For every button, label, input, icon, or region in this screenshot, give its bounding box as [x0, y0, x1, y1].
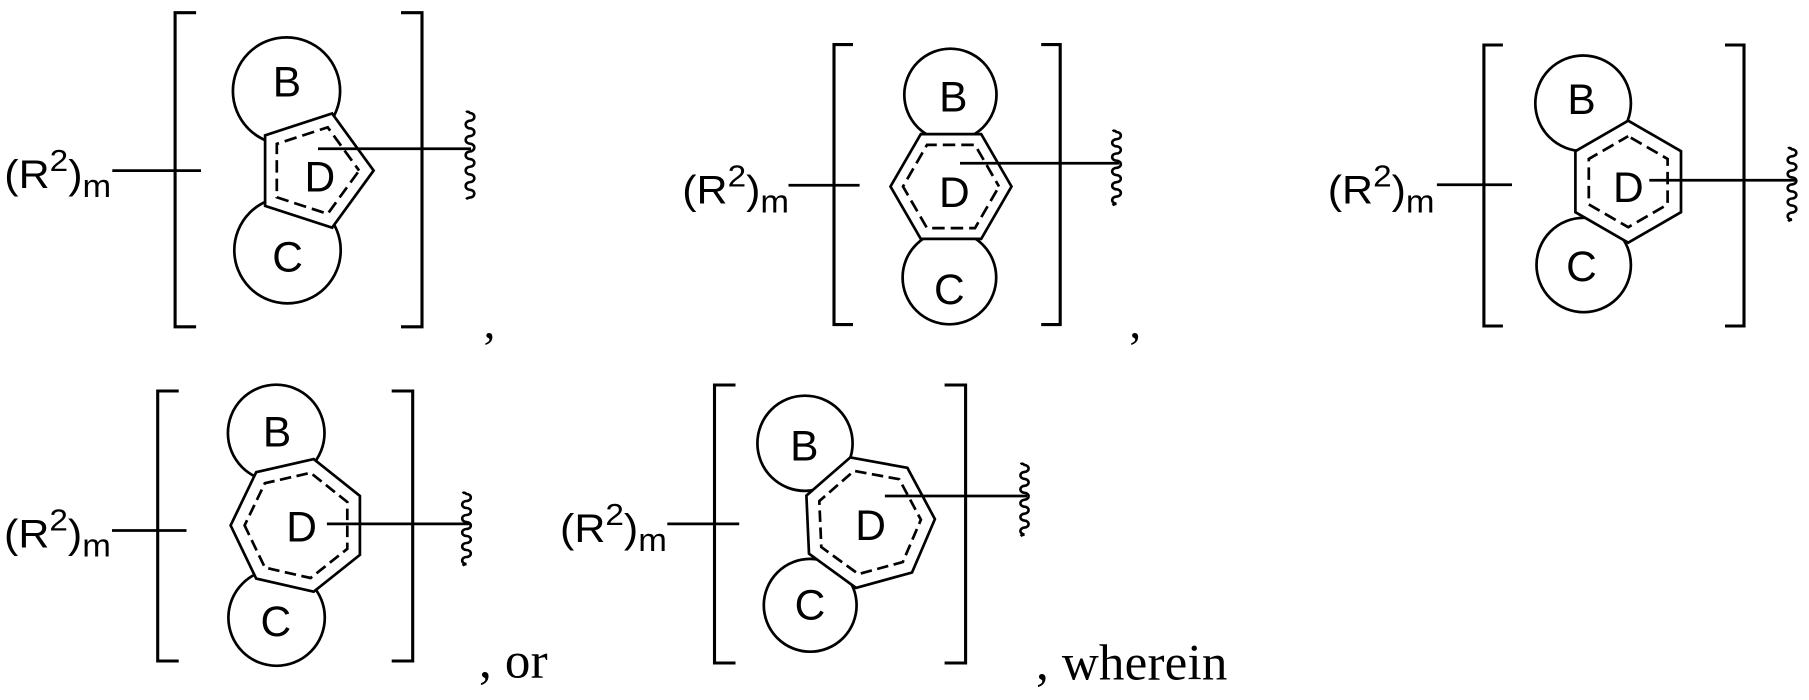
comma after structure 2	[1129, 297, 1141, 349]
right bracket	[392, 391, 413, 661]
left bracket	[715, 385, 736, 663]
ring D inner dashed pentagon (aromaticity)	[277, 127, 359, 214]
label C	[795, 583, 826, 630]
wavy bond (attachment point)	[1112, 131, 1121, 206]
label C	[1566, 244, 1597, 291]
label D	[305, 155, 336, 202]
svg-text:(R2)m: (R2)m	[560, 497, 667, 559]
substituent label (R2)m	[4, 143, 111, 205]
wavy bond (attachment point)	[1788, 148, 1797, 221]
ring C circle	[764, 559, 857, 652]
bond from ring D to wavy attachment	[1649, 179, 1795, 182]
comma after structure 1	[484, 297, 496, 349]
svg-text:, wherein: , wherein	[1036, 636, 1228, 692]
bond from (R2)m to bracket	[1437, 183, 1512, 186]
left bracket	[834, 45, 853, 325]
ring D inner dashed heptagon (aromaticity)	[819, 471, 921, 574]
substituent label (R2)m	[560, 497, 667, 559]
ring D inner dashed heptagon (aromaticity)	[245, 473, 348, 578]
svg-text:C: C	[795, 583, 826, 630]
svg-text:D: D	[1613, 165, 1644, 212]
ring C circle	[903, 231, 997, 325]
svg-text:,: ,	[1129, 297, 1141, 349]
left bracket	[1484, 45, 1503, 326]
svg-text:C: C	[272, 235, 303, 282]
svg-text:C: C	[1566, 244, 1597, 291]
ring C circle	[1537, 218, 1631, 312]
ring B circle	[904, 49, 996, 141]
label B	[273, 60, 301, 107]
label B	[939, 74, 967, 121]
svg-text:B: B	[790, 424, 818, 471]
structure 5: seven-membered ring D (rotated) fused with rings B and C	[560, 385, 1228, 692]
bond from (R2)m to bracket	[112, 169, 201, 172]
bond from (R2)m to bracket	[667, 523, 739, 526]
ring D heptagon	[806, 457, 935, 588]
label D	[939, 170, 970, 217]
label C	[261, 599, 292, 646]
right bracket	[945, 385, 966, 663]
svg-text:D: D	[305, 155, 336, 202]
label C	[934, 267, 965, 314]
label D	[855, 503, 886, 550]
svg-text:B: B	[939, 74, 967, 121]
substituent label (R2)m	[682, 159, 789, 221]
wavy bond (attachment point)	[462, 493, 471, 566]
label D	[286, 505, 317, 552]
left bracket	[158, 391, 179, 661]
svg-text:(R2)m: (R2)m	[682, 159, 789, 221]
structure 3: six-membered ring D (vertex up) fused with rings B and C	[1328, 45, 1797, 326]
substituent label (R2)m	[4, 502, 111, 564]
svg-text:C: C	[934, 267, 965, 314]
left bracket	[175, 13, 196, 327]
right bracket	[1041, 45, 1060, 325]
svg-text:(R2)m: (R2)m	[4, 502, 111, 564]
svg-text:,: ,	[484, 297, 496, 349]
ring D hexagon	[1575, 121, 1681, 243]
text ", wherein"	[1036, 636, 1228, 692]
svg-text:B: B	[263, 410, 291, 457]
bond from ring D to wavy attachment	[885, 495, 1027, 498]
ring D inner dashed hexagon (aromaticity)	[1589, 136, 1668, 227]
ring C circle	[228, 569, 324, 665]
svg-text:(R2)m: (R2)m	[4, 143, 111, 205]
label D	[1613, 165, 1644, 212]
structure 2: six-membered ring D fused with rings B and C	[682, 45, 1141, 349]
ring B circle	[233, 37, 340, 144]
bond from (R2)m to bracket	[789, 184, 860, 187]
label B	[1567, 77, 1595, 124]
ring D hexagon	[891, 134, 1012, 239]
svg-text:B: B	[1567, 77, 1595, 124]
ring D inner dashed hexagon (aromaticity)	[903, 145, 999, 228]
bond from ring D to wavy attachment	[960, 162, 1119, 165]
svg-text:C: C	[261, 599, 292, 646]
bond from ring D to wavy attachment	[318, 147, 471, 150]
right bracket	[1725, 45, 1744, 326]
label B	[790, 424, 818, 471]
bond from ring D to wavy attachment	[327, 523, 470, 526]
ring B circle	[757, 396, 852, 491]
svg-text:D: D	[939, 170, 970, 217]
label B	[263, 410, 291, 457]
right bracket	[401, 13, 422, 327]
ring D pentagon	[265, 114, 374, 228]
svg-text:, or: , or	[479, 634, 548, 690]
structure 1: five-membered ring D fused with rings B and C	[4, 13, 495, 349]
svg-text:D: D	[286, 505, 317, 552]
svg-text:B: B	[273, 60, 301, 107]
structure 4: seven-membered ring D fused with rings B and C	[4, 385, 548, 690]
substituent label (R2)m	[1328, 159, 1435, 221]
svg-text:(R2)m: (R2)m	[1328, 159, 1435, 221]
ring B circle	[1535, 56, 1631, 152]
label C	[272, 235, 303, 282]
bond from (R2)m to bracket	[112, 529, 187, 532]
ring D heptagon	[231, 459, 360, 592]
wavy bond (attachment point)	[466, 112, 475, 199]
ring C circle	[234, 197, 340, 303]
wavy bond (attachment point)	[1020, 464, 1028, 536]
text ", or"	[479, 634, 548, 690]
ring B circle	[228, 385, 325, 482]
svg-text:D: D	[855, 503, 886, 550]
